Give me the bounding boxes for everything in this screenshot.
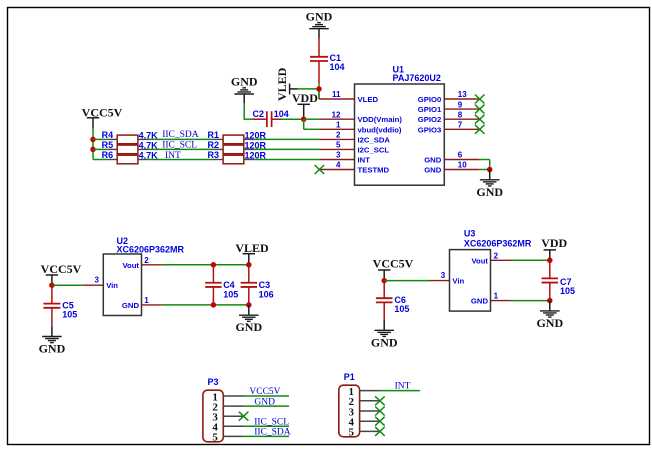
power port GND (top, above C1) (306, 9, 333, 38)
wire P1 pin1 INT (380, 390, 420, 392)
wire U2 pin 2 lead (142, 264, 163, 266)
no-connect X on GPIO3 (475, 125, 485, 134)
svg-text:104: 104 (274, 109, 289, 119)
svg-text:GND: GND (424, 156, 442, 165)
svg-text:GND: GND (536, 316, 563, 330)
no-connect X on P1 pin4 (375, 417, 385, 426)
junction node VCC5V/C5 (49, 282, 55, 288)
net label GND (254, 397, 275, 407)
junction node VDD (301, 116, 307, 122)
regulator U2 XC6206P362MR (95, 236, 185, 316)
svg-text:3: 3 (441, 271, 446, 280)
svg-text:1: 1 (336, 121, 341, 130)
svg-text:INT: INT (358, 156, 371, 165)
wire P3 pin4 IIC_SCL (244, 425, 289, 427)
svg-text:5: 5 (336, 141, 341, 150)
junction node row2 (90, 147, 96, 153)
svg-text:vbud(vddio): vbud(vddio) (358, 125, 402, 134)
power port GND (above C2) (231, 75, 258, 104)
wire P3 pin2 GND (244, 405, 289, 407)
svg-text:3: 3 (95, 276, 100, 285)
svg-text:R3: R3 (208, 150, 220, 160)
junction node VDD/C7 (547, 258, 553, 264)
wire row2 c (255, 148, 320, 150)
svg-text:INT: INT (395, 381, 411, 391)
svg-text:5: 5 (212, 432, 218, 444)
svg-text:GND: GND (122, 301, 140, 310)
svg-text:IIC_SDA: IIC_SDA (254, 428, 291, 438)
power port VDD (U3) (541, 236, 567, 258)
no-connect X on P1 pin2 (375, 396, 385, 405)
svg-text:R4: R4 (102, 130, 114, 140)
wire U3 GND to C7 (511, 300, 550, 302)
svg-text:R1: R1 (208, 130, 220, 140)
wire U3 pin 3 lead (430, 280, 450, 282)
svg-text:GPIO0: GPIO0 (418, 95, 442, 104)
svg-text:U3: U3 (464, 228, 476, 238)
wire row2 a (93, 148, 108, 150)
capacitor C2 (253, 109, 289, 127)
ground GND (C6) (371, 320, 398, 349)
resistor R1 (208, 130, 267, 144)
wire U1 pin 2 lead (319, 138, 354, 140)
wire U1 pin 3 lead (319, 159, 354, 161)
svg-text:R6: R6 (102, 150, 114, 160)
svg-text:4: 4 (336, 161, 341, 170)
resistor R2 (208, 140, 267, 154)
svg-text:VLED: VLED (275, 67, 289, 101)
wire row3 c (255, 159, 320, 161)
wire VDD junction to pin 1 (304, 119, 355, 129)
no-connect X on GPIO1 (475, 105, 485, 114)
svg-text:GND: GND (306, 9, 333, 23)
svg-text:PAJ7620U2: PAJ7620U2 (393, 73, 441, 83)
svg-text:VDD(Vmain): VDD(Vmain) (358, 115, 403, 124)
wire U2 pin 3 lead (83, 284, 104, 286)
capacitor C6 (376, 281, 410, 320)
wire U3 pin 2 lead (491, 259, 511, 261)
no-connect X on P3 pin3 (239, 412, 249, 421)
wire VCC5V to Vin (U3) (384, 280, 430, 282)
svg-text:GND: GND (39, 342, 66, 356)
svg-text:GND: GND (424, 166, 442, 175)
ground GND (U1) (476, 170, 503, 199)
net label IIC_SDA (162, 130, 199, 140)
svg-text:VCC5V: VCC5V (373, 256, 414, 270)
wire junction to pin 11 corner (318, 89, 320, 99)
resistor R3 (208, 150, 267, 164)
svg-text:VDD: VDD (292, 91, 318, 105)
resistor R4 (102, 130, 159, 144)
svg-text:9: 9 (458, 100, 463, 109)
svg-text:2: 2 (144, 256, 149, 265)
wire VLED port to junction (298, 88, 320, 90)
svg-text:7: 7 (458, 121, 463, 130)
wire row1 a (93, 138, 108, 140)
svg-text:Vin: Vin (106, 281, 118, 290)
svg-text:P1: P1 (344, 372, 355, 382)
connector P1 body (339, 372, 360, 437)
power port VLED (U2) (235, 241, 269, 263)
U1 right pin names and numbers (418, 90, 467, 174)
connector P3 body (203, 377, 223, 442)
net label VCC5V (249, 387, 280, 397)
U1 right pin leads (444, 99, 479, 170)
svg-text:C2: C2 (253, 109, 265, 119)
power port VCC5V (top left) (82, 106, 123, 129)
svg-text:12: 12 (332, 110, 341, 119)
svg-text:IIC_SCL: IIC_SCL (162, 141, 197, 151)
wire VDD junction to pin 12 (304, 118, 355, 120)
net label IIC_SCL (162, 141, 197, 151)
wire U2 pin 1 lead (142, 304, 163, 306)
svg-text:1: 1 (494, 292, 499, 301)
wire row1 b (149, 138, 214, 140)
svg-text:11: 11 (332, 90, 341, 99)
power port VCC5V (U2) (41, 262, 82, 283)
junction node VLED/C3 (246, 262, 252, 268)
capacitor C4 (205, 265, 238, 305)
svg-text:104: 104 (330, 62, 345, 72)
wire P3 pin5 IIC_SDA (244, 435, 289, 437)
junction node VLED/C1/pin11 (316, 86, 322, 92)
junction node C4 bottom (211, 302, 217, 308)
wire row2 b (149, 148, 214, 150)
svg-text:GPIO3: GPIO3 (418, 125, 442, 134)
no-connect X on TESTMD (315, 165, 325, 174)
svg-text:Vin: Vin (452, 277, 464, 286)
capacitor C1 (310, 38, 345, 83)
svg-text:105: 105 (394, 304, 409, 314)
svg-text:2: 2 (494, 251, 499, 260)
svg-text:105: 105 (62, 310, 77, 320)
svg-text:GPIO1: GPIO1 (418, 105, 442, 114)
svg-text:105: 105 (560, 286, 575, 296)
svg-text:6: 6 (458, 151, 463, 160)
svg-text:1: 1 (144, 296, 149, 305)
wire row1 c (255, 138, 320, 140)
no-connect X on GPIO2 (475, 115, 485, 124)
P1 pins 1-5 (348, 386, 379, 439)
svg-text:I2C_SCL: I2C_SCL (358, 145, 390, 154)
junction node C7/GND (547, 298, 553, 304)
junction node C3/GND (246, 302, 252, 308)
ground GND (C5) (39, 326, 66, 355)
svg-text:VLED: VLED (235, 241, 269, 255)
U1 left pin names and numbers (332, 90, 403, 174)
svg-text:Vout: Vout (471, 256, 488, 265)
svg-text:VCC5V: VCC5V (249, 387, 280, 397)
wire Vout to VLED (163, 264, 249, 266)
net label IIC_SCL (P3) (254, 417, 289, 427)
svg-text:GND: GND (371, 335, 398, 349)
power port VDD (top) (292, 91, 318, 117)
junction node row1 (90, 137, 96, 143)
wire VCC5V to Vin (U2) (52, 284, 83, 286)
wire U3 pin 1 lead (491, 300, 511, 302)
junction node U1 GND (487, 167, 493, 173)
capacitor C7 (542, 260, 575, 300)
svg-text:GND: GND (471, 297, 489, 306)
capacitor C3 (241, 265, 274, 305)
svg-text:GND: GND (254, 397, 275, 407)
ground GND (U2 output) (235, 305, 262, 334)
svg-text:IIC_SDA: IIC_SDA (162, 130, 199, 140)
capacitor C5 (43, 285, 77, 326)
junction node C4 top (211, 262, 217, 268)
svg-text:5: 5 (348, 427, 354, 439)
wire row3 a (93, 159, 108, 161)
wire C1 to VDD/VLED junction (318, 83, 320, 99)
net label INT (165, 151, 181, 161)
svg-text:INT: INT (165, 151, 181, 161)
svg-text:GND: GND (476, 185, 503, 199)
svg-text:GND: GND (231, 75, 258, 89)
svg-text:10: 10 (458, 161, 467, 170)
wire C2 to VDD junction (282, 118, 304, 120)
regulator U3 XC6206P362MR (441, 228, 532, 311)
svg-text:R5: R5 (102, 140, 114, 150)
svg-text:3: 3 (336, 151, 341, 160)
wire P3 pin1 VCC5V (244, 395, 289, 397)
power port VLED (top) (275, 67, 298, 101)
wire VCC5V rail vertical (92, 129, 94, 160)
no-connect X on P1 pin5 (375, 427, 385, 436)
net label INT (P1) (395, 381, 411, 391)
svg-text:8: 8 (458, 110, 463, 119)
wire U2 GND rail (163, 304, 249, 306)
op-amp U1 PAJ7620U2 body (355, 65, 445, 186)
svg-text:VLED: VLED (358, 95, 379, 104)
wire row3 b (149, 159, 214, 161)
svg-text:IIC_SCL: IIC_SCL (254, 417, 289, 427)
svg-text:VCC5V: VCC5V (41, 262, 82, 276)
wire GND pin6 to pin10 (480, 160, 490, 170)
ground GND (U3 output) (536, 301, 563, 330)
P3 pins 1-5 (212, 391, 243, 443)
svg-text:Vout: Vout (122, 261, 139, 270)
svg-text:VDD: VDD (541, 236, 567, 250)
junction node VCC5V/C6 (381, 278, 387, 284)
resistor R5 (102, 140, 159, 154)
resistor R6 (102, 150, 159, 164)
svg-text:GND: GND (235, 320, 262, 334)
power port VCC5V (U3) (373, 256, 414, 278)
svg-text:106: 106 (259, 289, 274, 299)
svg-text:GPIO2: GPIO2 (418, 115, 442, 124)
svg-text:XC6206P362MR: XC6206P362MR (117, 244, 185, 254)
net label IIC_SDA (P3) (254, 428, 291, 438)
svg-text:105: 105 (223, 289, 238, 299)
svg-text:2: 2 (336, 131, 341, 140)
no-connect X on P1 pin3 (375, 407, 385, 416)
svg-text:XC6206P362MR: XC6206P362MR (464, 238, 532, 248)
svg-text:I2C_SDA: I2C_SDA (358, 135, 391, 144)
wire U1 pin 5 lead (319, 148, 354, 150)
wire U1 pin 11 lead (319, 98, 355, 100)
wire Vout to VDD (511, 259, 550, 261)
svg-text:TESTMD: TESTMD (358, 166, 390, 175)
svg-text:R2: R2 (208, 140, 220, 150)
no-connect X on GPIO0 (475, 95, 485, 104)
wire GND to C2 (244, 103, 253, 120)
svg-text:13: 13 (458, 90, 467, 99)
svg-text:P3: P3 (208, 377, 219, 387)
wire U1 pin 4 lead (319, 169, 354, 171)
